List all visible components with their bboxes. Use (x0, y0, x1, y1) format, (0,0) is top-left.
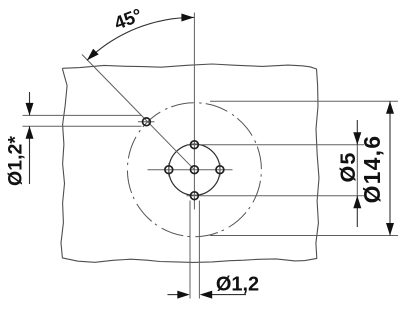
crosshair top hole / Ø5 upper extension line (187, 144, 365, 146)
crosshair left hole (168, 163, 170, 177)
Ø1,2* lower extension line (left) (23, 125, 142, 127)
left hole (165, 166, 173, 174)
svg-text:Ø5: Ø5 (336, 151, 360, 182)
bottom hole (191, 192, 199, 200)
Ø1,2* upper extension line (left) (23, 114, 142, 116)
45deg hole (143, 118, 151, 126)
45 deg dimension arc (87, 17, 194, 60)
top hole (191, 141, 199, 149)
Ø14,6 dimension line + arrows (right) (389, 101, 391, 235)
svg-text:Ø1,2: Ø1,2 (216, 274, 259, 296)
panel outline (broken-out section, freehand edges) (61, 64, 319, 262)
vertical centerline (193, 13, 195, 210)
horizontal centerline (148, 169, 233, 171)
Ø1,2* dimension lines + arrows (left) (29, 92, 31, 115)
crosshair 45deg hole (138, 121, 155, 123)
45 deg diagonal centerline (82, 55, 194, 170)
bolt circle Ø14,6 (dash-dot) (127, 103, 261, 237)
Ø1,2 right extension line (bottom) (198, 201, 200, 299)
svg-text:Ø14,6: Ø14,6 (359, 135, 385, 204)
Ø14,6 upper extension line (210, 100, 398, 102)
Ø1,2 left extension line (bottom) (189, 201, 191, 299)
right hole (216, 166, 224, 174)
crosshair right hole (219, 163, 221, 177)
Ø1,2 dimension lines + arrows (bottom) (168, 294, 180, 296)
arc arrowhead right (181, 14, 194, 22)
crosshair bottom hole / Ø5 lower extension line (187, 195, 365, 197)
pitch circle Ø5 (solid) (169, 144, 220, 195)
svg-text:Ø1,2*: Ø1,2* (5, 136, 27, 186)
arc arrowhead left (87, 49, 99, 61)
Ø14,6 lower extension line (210, 235, 398, 237)
Ø5 dimension lines + arrows (right) (356, 120, 358, 145)
centre hole (191, 166, 199, 174)
